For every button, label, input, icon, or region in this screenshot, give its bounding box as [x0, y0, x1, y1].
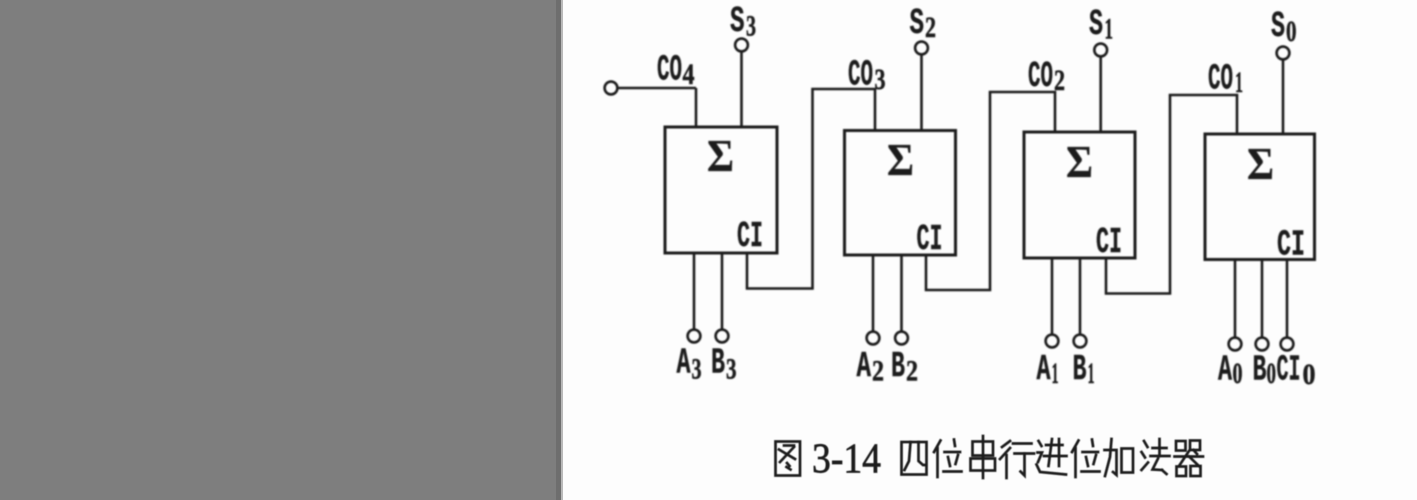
label A3 — [677, 343, 702, 386]
terminal A1 — [1046, 335, 1059, 348]
caption hanzi SI (four) — [902, 442, 927, 475]
wire A2 input — [872, 255, 875, 332]
svg-text:CI: CI — [1096, 222, 1122, 263]
svg-text:3: 3 — [692, 353, 702, 386]
terminal B0 — [1256, 338, 1269, 351]
wire S1 — [1099, 56, 1102, 132]
label B3 — [711, 343, 737, 386]
label S1 — [1089, 4, 1113, 46]
terminal S3 — [735, 39, 748, 52]
label CO1 — [1208, 59, 1243, 100]
svg-text:1: 1 — [1235, 66, 1243, 99]
caption hanzi JIN (carry) — [1037, 439, 1067, 475]
caption hanzi CHUAN (serial) — [971, 436, 996, 478]
wire CO1 link from U4 top to U3 CI — [1106, 95, 1237, 294]
caption hanzi XING (row) — [1000, 441, 1034, 478]
label CO3 — [848, 55, 886, 97]
svg-text:1: 1 — [1105, 13, 1114, 46]
svg-text:CI: CI — [1277, 225, 1305, 266]
full adder U4 (bit 0) — [1205, 134, 1315, 260]
svg-text:2: 2 — [925, 11, 936, 44]
svg-text:S: S — [1271, 6, 1285, 47]
label A2 — [857, 346, 885, 388]
label B0 — [1253, 350, 1277, 391]
label S3 — [730, 1, 756, 43]
terminal S1 — [1094, 44, 1107, 57]
svg-text:1: 1 — [1052, 357, 1059, 390]
terminal CI0 — [1281, 338, 1294, 351]
label S0 — [1271, 6, 1297, 48]
svg-text:CO: CO — [1028, 56, 1053, 97]
svg-text:B: B — [1253, 350, 1267, 391]
caption hanzi WEI (bit) second — [1072, 440, 1100, 478]
svg-text:A: A — [1218, 350, 1232, 391]
terminal A2 — [867, 332, 880, 345]
wire CO2 link from U3 top to U2 CI — [926, 92, 1055, 290]
svg-text:Σ: Σ — [887, 134, 914, 185]
terminal B1 — [1074, 335, 1087, 348]
svg-text:Σ: Σ — [1066, 136, 1093, 187]
wire B2 input — [900, 255, 903, 332]
svg-text:B: B — [891, 346, 905, 387]
terminal CO4 — [605, 82, 618, 95]
wire S0 — [1282, 59, 1285, 134]
svg-text:3: 3 — [726, 353, 737, 386]
wire CI0 input — [1286, 260, 1289, 338]
svg-text:0: 0 — [1286, 15, 1297, 48]
gray sidebar background — [0, 0, 563, 500]
terminal A3 — [688, 330, 701, 343]
svg-text:4: 4 — [683, 58, 695, 91]
label B1 — [1073, 349, 1095, 390]
svg-text:2: 2 — [1054, 64, 1065, 97]
svg-text:CO: CO — [848, 55, 873, 96]
svg-text:A: A — [1037, 349, 1051, 390]
wire CO3 link from U2 top to U1 CI — [747, 89, 875, 289]
full adder U1 (bit 3) — [665, 127, 777, 253]
terminal B2 — [895, 332, 908, 345]
full adder U3 (bit 1) — [1024, 132, 1135, 258]
caption hanzi QI (device) — [1175, 441, 1204, 477]
terminal S0 — [1277, 47, 1290, 60]
svg-text:B: B — [711, 343, 725, 384]
svg-text:3-14: 3-14 — [812, 437, 881, 483]
caption hanzi WEI (bit) — [934, 440, 962, 478]
caption hanzi TU (figure) — [776, 442, 801, 476]
svg-text:CI: CI — [917, 219, 943, 260]
label A1 — [1037, 349, 1059, 390]
wire CO4 vertical into U1 — [695, 88, 698, 127]
svg-text:CI: CI — [737, 216, 763, 257]
wire A1 input — [1051, 258, 1054, 335]
label A0 — [1218, 350, 1243, 391]
svg-text:A: A — [857, 346, 872, 387]
terminal A0 — [1229, 338, 1242, 351]
svg-text:0: 0 — [1233, 357, 1243, 390]
wire B1 input — [1079, 258, 1082, 335]
svg-text:0: 0 — [1267, 357, 1277, 390]
svg-text:CO: CO — [1208, 59, 1233, 100]
wire CO4 horizontal — [617, 87, 696, 90]
terminal B3 — [716, 330, 729, 343]
full adder U2 (bit 2) — [845, 131, 956, 256]
svg-text:CI: CI — [1277, 350, 1301, 391]
svg-text:3: 3 — [746, 10, 756, 43]
svg-text:Σ: Σ — [1247, 138, 1274, 189]
svg-text:Σ: Σ — [707, 130, 734, 181]
svg-text:A: A — [677, 343, 691, 384]
svg-text:0: 0 — [1303, 358, 1316, 391]
svg-text:S: S — [910, 3, 925, 44]
label CI0 — [1277, 350, 1316, 392]
label CO2 — [1028, 56, 1065, 97]
wire S3 — [740, 51, 743, 127]
label S2 — [910, 3, 937, 44]
svg-text:3: 3 — [875, 63, 886, 96]
svg-text:S: S — [1089, 4, 1103, 45]
wire S2 — [920, 54, 923, 130]
terminal S2 — [915, 42, 928, 55]
wire B0 input — [1261, 260, 1264, 338]
wire A0 input — [1234, 260, 1237, 338]
caption hanzi JIA (add) — [1105, 439, 1134, 476]
svg-text:CO: CO — [657, 50, 682, 91]
label CO4 — [657, 50, 695, 92]
svg-text:S: S — [730, 1, 745, 42]
wire A3 input — [693, 253, 696, 330]
svg-text:2: 2 — [906, 355, 918, 388]
svg-text:1: 1 — [1088, 357, 1095, 390]
svg-text:B: B — [1073, 349, 1087, 390]
svg-text:2: 2 — [872, 355, 884, 388]
label B2 — [891, 346, 918, 388]
caption hanzi FA (method) — [1142, 439, 1170, 474]
wire B3 input — [721, 253, 724, 330]
